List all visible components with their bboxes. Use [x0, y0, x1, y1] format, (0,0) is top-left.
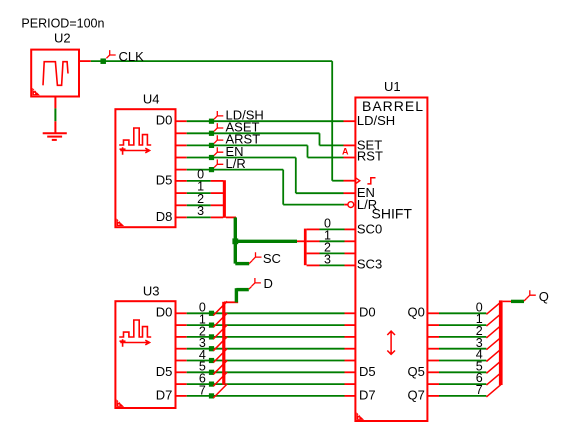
svg-text:U4: U4 — [143, 92, 160, 107]
svg-text:Q5: Q5 — [408, 364, 425, 379]
svg-text:CLK: CLK — [119, 49, 145, 64]
svg-text:D0: D0 — [359, 305, 376, 320]
svg-text:U3: U3 — [143, 283, 160, 298]
svg-text:3: 3 — [197, 204, 204, 218]
svg-text:7: 7 — [199, 383, 206, 397]
svg-text:D5: D5 — [156, 172, 173, 187]
svg-text:D7: D7 — [359, 387, 376, 402]
svg-text:SHIFT: SHIFT — [372, 205, 413, 221]
svg-text:D5: D5 — [156, 364, 173, 379]
svg-text:SC3: SC3 — [357, 257, 382, 272]
svg-text:7: 7 — [476, 383, 483, 397]
svg-text:RST: RST — [357, 149, 383, 164]
svg-text:D0: D0 — [156, 305, 173, 320]
svg-text:D: D — [264, 276, 273, 291]
svg-text:3: 3 — [324, 253, 331, 267]
svg-text:A: A — [342, 147, 349, 157]
svg-text:U1: U1 — [384, 79, 401, 94]
svg-text:SC0: SC0 — [357, 221, 382, 236]
svg-text:Q0: Q0 — [408, 305, 425, 320]
svg-text:U2: U2 — [54, 31, 71, 46]
svg-text:BARREL: BARREL — [362, 98, 424, 114]
svg-text:PERIOD=100n: PERIOD=100n — [21, 17, 104, 31]
svg-text:D0: D0 — [156, 113, 173, 128]
svg-text:Q7: Q7 — [408, 387, 425, 402]
svg-text:D7: D7 — [156, 387, 173, 402]
svg-text:D8: D8 — [156, 209, 173, 224]
svg-text:SC: SC — [263, 251, 281, 266]
svg-text:LD/SH: LD/SH — [357, 113, 395, 128]
svg-text:L/R: L/R — [357, 197, 377, 212]
svg-text:Q: Q — [539, 289, 549, 304]
svg-text:D5: D5 — [359, 364, 376, 379]
